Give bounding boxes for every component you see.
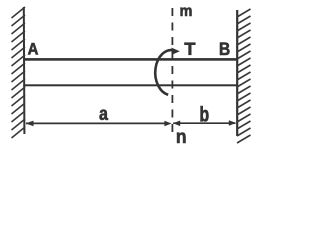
dimension line a (shaft) bbox=[26, 122, 167, 124]
right wall hatching bbox=[237, 9, 251, 143]
left wall line bbox=[23, 7, 26, 134]
label m bbox=[181, 8, 192, 17]
label n bbox=[177, 133, 186, 144]
dimension arrow left of b (at section) bbox=[173, 121, 180, 127]
section line m-n (dashed) bbox=[171, 8, 173, 134]
label a bbox=[100, 110, 109, 121]
dimension arrow left (at wall A) bbox=[26, 121, 34, 127]
label A bbox=[28, 43, 38, 55]
right wall line bbox=[236, 10, 238, 136]
dimension line b (shaft) bbox=[173, 122, 235, 124]
bar top edge bbox=[24, 58, 238, 61]
dimension arrow right (at wall B) bbox=[229, 120, 236, 126]
label b bbox=[201, 106, 209, 122]
left wall hatching bbox=[12, 7, 26, 138]
label T bbox=[185, 43, 196, 55]
dimension arrow right of a (at section) bbox=[164, 121, 171, 127]
torque arrowhead bbox=[172, 48, 180, 55]
label B bbox=[220, 43, 230, 56]
torque arc bbox=[155, 50, 174, 95]
bar bottom edge bbox=[24, 84, 238, 86]
